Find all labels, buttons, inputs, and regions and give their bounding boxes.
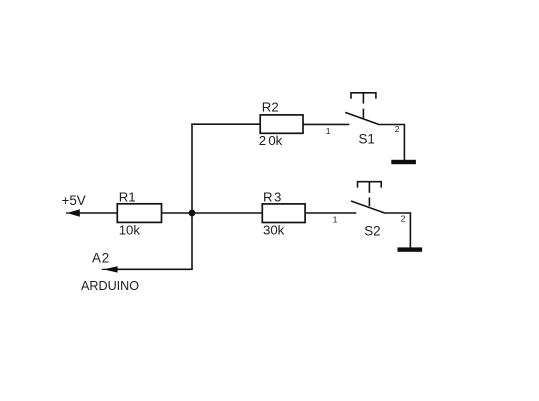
- wire node A up to R2 branch: [191, 124, 193, 213]
- svg-text:S2: S2: [364, 224, 380, 239]
- switch S1 (push button): [345, 93, 404, 125]
- svg-text:R2: R2: [262, 100, 279, 115]
- svg-text:ARDUINO: ARDUINO: [81, 279, 139, 293]
- ground S1: [391, 160, 416, 164]
- switch S2 (push button): [351, 182, 410, 214]
- wire node A to R3: [192, 212, 262, 214]
- wire R3 to S2 pin 1: [305, 212, 356, 214]
- svg-text:2: 2: [395, 124, 400, 134]
- S1 pin 2 lead: [380, 124, 405, 126]
- wire R2 to S1 pin 1: [303, 123, 349, 125]
- S2 actuator shaft: [368, 182, 370, 193]
- svg-text:20k: 20k: [259, 133, 283, 148]
- ground S2: [398, 247, 423, 251]
- svg-text:R1: R1: [119, 189, 136, 204]
- svg-text:R3: R3: [263, 189, 283, 204]
- wire S2 pin 2 to ground: [409, 212, 411, 248]
- arduino pin arrow A2: [102, 266, 118, 272]
- S1 button cap: [351, 93, 376, 99]
- svg-text:1: 1: [333, 215, 338, 225]
- S2 lever: [351, 201, 385, 213]
- svg-text:10k: 10k: [119, 222, 141, 237]
- wire node A down: [191, 213, 193, 269]
- svg-text:2: 2: [401, 213, 406, 223]
- wire arduino branch: [117, 268, 193, 270]
- svg-text:+5V: +5V: [62, 193, 86, 208]
- svg-text:S1: S1: [359, 132, 375, 147]
- resistor R1: [117, 189, 161, 237]
- wire R2 branch horizontal: [191, 123, 260, 125]
- svg-text:1: 1: [326, 126, 331, 136]
- S2 pin 2 lead: [385, 212, 410, 214]
- wire +5V arrow to R1: [79, 212, 118, 214]
- S2 button cap: [358, 182, 382, 188]
- resistor R2: [259, 100, 303, 149]
- power terminal +5V: [62, 193, 86, 217]
- S1 lever: [345, 112, 379, 124]
- wire R1 to node A: [162, 212, 193, 214]
- node A junction dot: [189, 210, 196, 217]
- S1 actuator shaft: [362, 93, 364, 104]
- svg-text:30k: 30k: [263, 223, 285, 238]
- svg-text:A2: A2: [92, 250, 110, 265]
- resistor R3: [262, 189, 305, 237]
- wire S1 pin 2 to ground: [403, 124, 405, 161]
